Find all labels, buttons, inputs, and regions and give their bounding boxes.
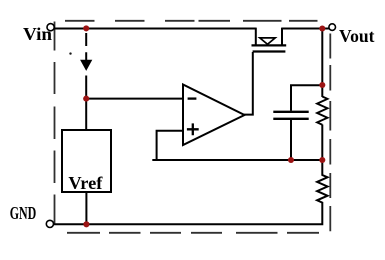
wire: non-inverting input to feedback node (157, 131, 184, 160)
wire: from arrow to node A (85, 76, 87, 100)
IC boundary dashed box : bottom edge (67, 232, 319, 234)
junction dot: R1/R2 feedback node (319, 157, 325, 163)
junction dot: Vref ground (83, 221, 89, 227)
transistor Q1 (PMOS pass element) : source lead (255, 28, 257, 45)
Vref block box (62, 130, 111, 192)
transistor Q1 : drain lead (281, 28, 283, 45)
dashed bias-current arrow from Vin rail (85, 33, 87, 60)
resistor R1 (317, 97, 327, 125)
wire: node A to op-amp inverting input (85, 98, 183, 100)
terminal: Vout pin circle (329, 24, 336, 31)
svg-text:GND: GND (10, 203, 37, 223)
wire: gate lead down to op-amp output (244, 52, 253, 115)
op-amp minus sign (188, 97, 197, 99)
svg-text:Vout: Vout (339, 26, 375, 46)
capacitor C1 top plate (273, 111, 308, 113)
op-amp U1 (error amplifier) (183, 85, 245, 146)
wire: R1 bottom to feedback node (321, 125, 323, 162)
transistor Q1 : gate bar (253, 50, 286, 52)
wire: node A down to Vref box (85, 99, 87, 131)
terminal: Vin pin circle (47, 24, 54, 31)
op-amp plus sign (187, 123, 199, 135)
wire: MOSFET drain rail to Vout (282, 28, 330, 30)
svg-text:Vref: Vref (68, 173, 103, 193)
transistor Q1 : channel bar (252, 44, 287, 46)
resistor R2 (54, 160, 328, 224)
wire: Vref bottom lead to ground rail (85, 192, 87, 225)
wire: Vout node down to cap/R1 branch (321, 29, 323, 98)
junction dot: cap/R1 branch (319, 82, 325, 88)
wire: branch to capacitor (291, 85, 322, 111)
svg-text:Vin: Vin (23, 24, 52, 44)
stray dot mark (69, 52, 71, 54)
junction dot: cap bottom on FB net (288, 157, 294, 163)
capacitor C1 bottom plate (273, 118, 308, 120)
IC boundary dashed box : left edge (54, 22, 56, 224)
wire: capacitor bottom lead (290, 120, 292, 161)
IC boundary dashed box : top edge (65, 20, 318, 22)
junction dot: Vout rail (319, 25, 325, 31)
junction dot: node A (Vref / inverting input) (83, 96, 89, 102)
transistor Q1 : arrow (body diode arrow pointing down) (260, 38, 275, 44)
arrowhead of bias arrow (81, 60, 92, 70)
junction dot: Vin rail / bias arrow (83, 25, 89, 31)
wire: Vin rail to MOSFET source (54, 28, 256, 30)
wire: feedback line (FB net) (152, 159, 322, 161)
terminal: GND pin circle (46, 220, 53, 227)
IC boundary dashed box : right edge (329, 34, 331, 232)
